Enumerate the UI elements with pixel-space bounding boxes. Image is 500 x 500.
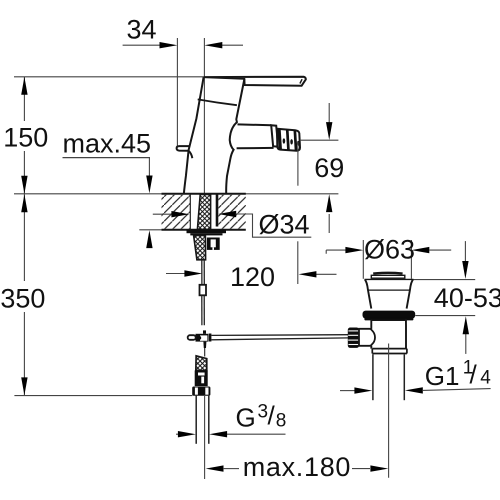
supply: braided hose section xyxy=(196,356,207,371)
wire: 150-dim top reference line xyxy=(14,76,204,78)
dimension G1 1/4 : arrows xyxy=(340,387,491,394)
dimension 69 : aerator extension line xyxy=(297,142,299,186)
pop-up rod: upper rod below shank xyxy=(201,260,203,285)
svg-text:G1: G1 xyxy=(425,361,460,391)
pop-up rod: coupler sleeve xyxy=(200,285,207,296)
pop-up rod: rod between coupler and pivot xyxy=(201,295,203,325)
linkage: left arm knob xyxy=(188,335,196,340)
linkage: right collar xyxy=(209,334,212,342)
faucet: aerator knurled barrel xyxy=(277,129,300,151)
svg-text:40-53: 40-53 xyxy=(434,283,500,313)
dimension 69 : lower arrow pointing up xyxy=(326,194,332,233)
faucet: spout bottom edge xyxy=(237,147,274,149)
dimension O34 : left arrow xyxy=(153,211,190,217)
drain: body bottom band xyxy=(372,349,407,354)
dimension 120 : extension line below O34 shelf xyxy=(297,241,299,284)
drain: body below rim xyxy=(371,319,406,349)
faucet: threaded shank below washer xyxy=(194,235,206,259)
wire: 350-dim bottom reference line xyxy=(14,395,192,397)
svg-text:3: 3 xyxy=(258,402,269,423)
faucet: spout top edge xyxy=(238,123,272,126)
linkage: pivot pin top nub xyxy=(203,330,206,333)
dimension 34 : right extension line / faucet centre axis xyxy=(203,38,205,194)
drain: flange flare and neck xyxy=(365,280,413,309)
svg-text:350: 350 xyxy=(0,284,45,314)
faucet: body outline left edge xyxy=(184,77,204,193)
svg-text:max.45: max.45 xyxy=(63,128,152,158)
faucet: threaded shank through deck (braided look) xyxy=(197,195,210,230)
dimension G3/8 : arrows xyxy=(176,431,286,437)
dimension 40-53 : upper reference line xyxy=(414,279,476,281)
faucet: pop-up rod guide bracket xyxy=(207,238,220,250)
svg-text:69: 69 xyxy=(314,153,344,183)
svg-text:150: 150 xyxy=(3,122,48,152)
faucet: dome seam line xyxy=(198,99,237,105)
dimension max.45 : leader with down arrow to deck xyxy=(146,158,152,249)
faucet: lever blade xyxy=(204,77,306,86)
dimension 120 : left arrow pointing right at rod xyxy=(166,270,202,276)
dimension 40-53 : down arrow with tail xyxy=(462,241,468,279)
svg-text:/: / xyxy=(268,401,276,431)
svg-text:34: 34 xyxy=(126,14,156,44)
dimension max.180 : dim line with outward arrows xyxy=(206,465,389,471)
dimension 120 : right arrow pointing left at spout line xyxy=(299,271,337,277)
deck: hole right edge (thick) xyxy=(216,195,219,227)
svg-text:max.180: max.180 xyxy=(243,452,351,482)
deck: slab top edge (thick part) xyxy=(162,193,246,195)
dimension 69 : upper arrow pointing down xyxy=(326,103,332,140)
svg-text:120: 120 xyxy=(230,262,275,292)
drain: neck seam line xyxy=(368,289,409,291)
svg-text:4: 4 xyxy=(480,368,491,389)
drain: knurled knob for rod xyxy=(348,328,359,348)
faucet: spout tip ring xyxy=(271,125,278,147)
linkage: thin wire to hose xyxy=(204,348,206,357)
deck: hole left edge xyxy=(189,195,191,230)
dimension O34 : right arrow and leader shelf xyxy=(218,211,311,237)
max.180 left extension line / pipe centre xyxy=(204,396,206,479)
supply: G3/8 connection pipe xyxy=(195,396,197,444)
drain: cap brim xyxy=(371,275,405,278)
faucet: mounting washer plate xyxy=(187,230,227,234)
svg-text:Ø63: Ø63 xyxy=(364,234,415,264)
svg-text:G: G xyxy=(236,403,256,433)
faucet: rear pop-up knob stub xyxy=(177,146,193,158)
drain: rod socket housing xyxy=(359,329,375,346)
dimension 40-53 : lower reference line xyxy=(415,315,475,317)
deck: hatching left of hole xyxy=(162,195,191,229)
dimension O63 : dim line and arrows xyxy=(326,247,451,254)
drain: body top edge below rim xyxy=(372,319,406,321)
deck: hatching right of hole xyxy=(219,195,246,229)
deck: mounting surface top line xyxy=(14,193,338,195)
drain: pop-up cap knob xyxy=(373,272,402,275)
svg-text:/: / xyxy=(470,360,478,390)
linkage: horizontal rod to drain xyxy=(211,334,348,337)
dimension 34 : left extension line (pop-up knob tip) xyxy=(176,38,178,146)
dimension 40-53 : up arrow with tail xyxy=(463,316,469,354)
drain: black rim band xyxy=(363,311,416,319)
dimension 350 : dim line with outward arrows xyxy=(21,194,27,395)
drain: centre axis line xyxy=(388,344,390,478)
linkage: pin below pivot xyxy=(203,342,206,348)
dimension 150 : dim line with outward arrows xyxy=(21,77,27,194)
faucet: body outline right edge with spout fillet xyxy=(226,79,244,193)
drain: tailpipe xyxy=(372,354,374,400)
dimension 34 : dim line and arrows xyxy=(123,42,243,48)
svg-text:8: 8 xyxy=(276,411,287,432)
svg-text:Ø34: Ø34 xyxy=(259,209,310,239)
faucet: notch in lever tip xyxy=(300,79,302,83)
dimension 69 : top reference line at aerator level xyxy=(300,139,339,141)
dimension O63 : extension lines xyxy=(362,240,364,279)
deck: slab bottom line xyxy=(139,229,161,231)
linkage: pivot block xyxy=(196,334,209,342)
supply: hex flange xyxy=(192,387,210,396)
supply: coupling nut xyxy=(195,370,208,386)
